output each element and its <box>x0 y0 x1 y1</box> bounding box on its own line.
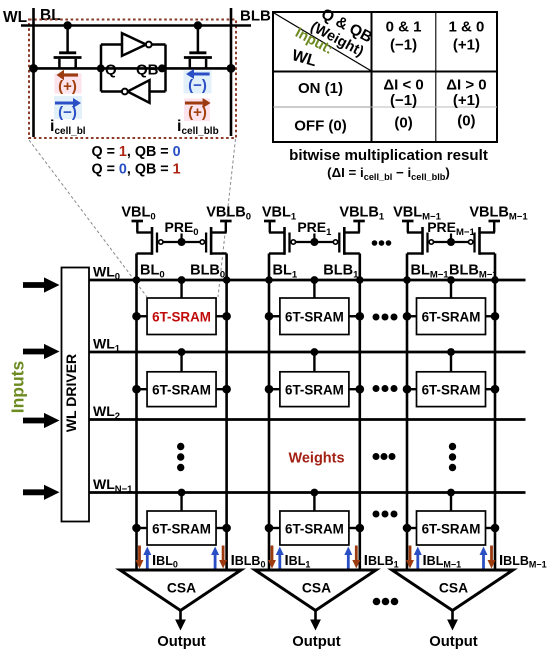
node BLB side col 0 row 1 <box>222 385 231 394</box>
svg-text:(−1): (−1) <box>390 92 417 109</box>
6T-SRAM cell col 0 row 0 <box>137 280 227 335</box>
arrow icell_bl negative (blue right) <box>55 102 73 105</box>
svg-text:Weights: Weights <box>288 451 344 467</box>
power terminal VBL0 <box>132 220 144 223</box>
wire BLM&#8722;1 <box>406 254 409 571</box>
node M2 gate on WL <box>194 21 202 29</box>
svg-text:Q: Q <box>105 62 117 79</box>
CSA comparator col M&#8722;1 <box>392 570 513 611</box>
svg-text:(+1): (+1) <box>453 37 480 54</box>
table header divider <box>273 71 497 73</box>
transistor PRE0 left PMOS <box>137 231 153 233</box>
svg-text:(−): (−) <box>188 77 207 94</box>
node stub col 1 row 1 <box>311 348 319 356</box>
svg-text:6T-SRAM: 6T-SRAM <box>152 383 211 398</box>
svg-text:(+): (+) <box>58 78 77 95</box>
arrow IBLB0 up (blue) <box>214 555 217 569</box>
table diagonal <box>274 13 371 71</box>
node BLB side col 0 row 3 <box>222 524 231 533</box>
node BL side col M&#8722;1 row 3 <box>403 524 412 533</box>
ellipsis dots y=601.5 <box>373 598 381 606</box>
inverter bottom (QB to Q) <box>122 80 150 103</box>
wire PREM&#8722;1 gate <box>434 241 469 243</box>
node BL side col 0 row 3 <box>132 524 141 533</box>
input arrow row 2 <box>23 413 60 428</box>
node QB <box>158 64 166 72</box>
svg-text:Q = 0, QB = 1: Q = 0, QB = 1 <box>92 162 181 178</box>
arrow IBLB0 down (red) <box>222 546 225 561</box>
svg-text:6T-SRAM: 6T-SRAM <box>152 521 211 536</box>
input arrow row 1 <box>23 344 60 359</box>
svg-text:ΔI > 0: ΔI > 0 <box>446 77 486 94</box>
node stub col 0 row 1 <box>178 348 186 356</box>
arrow IBLM&#8722;1 up (blue) <box>416 555 419 569</box>
table outer border <box>273 12 497 142</box>
wire cell horizontal <box>34 67 232 70</box>
power terminal VBL1 <box>264 220 276 223</box>
arrow IBL0 up (blue) <box>146 555 149 569</box>
arrow IBLBM&#8722;1 up (blue) <box>482 555 485 569</box>
6T-SRAM cell col 1 row 3 <box>269 493 360 546</box>
node BLM&#8722;1 x WL0 <box>403 276 411 284</box>
wire BLB rail <box>230 8 233 136</box>
node stub col M&#8722;1 row 0 <box>447 276 455 284</box>
svg-text:ΔI < 0: ΔI < 0 <box>383 77 423 94</box>
WL driver box <box>62 268 90 522</box>
highlight pink (+) right <box>184 99 210 122</box>
arrow IBL1 up (blue) <box>278 555 281 569</box>
svg-text:OFF (0): OFF (0) <box>294 118 347 135</box>
svg-text:(+1): (+1) <box>453 92 480 109</box>
svg-text:QB: QB <box>136 62 159 79</box>
node PRE1 gate <box>310 238 318 246</box>
node BLB side col M&#8722;1 row 0 <box>491 312 500 321</box>
transistor PREM&#8722;1 right PMOS <box>480 231 496 233</box>
svg-text:6T-SRAM: 6T-SRAM <box>285 521 344 536</box>
node stub col M&#8722;1 row 3 <box>447 489 455 497</box>
6T-SRAM cell col 0 row 1 <box>137 352 227 407</box>
svg-text:WL DRIVER: WL DRIVER <box>63 354 79 432</box>
vertical ellipsis x=452.5 <box>449 443 456 450</box>
wire BL1 <box>268 254 271 571</box>
power terminal VBLM&#8722;1 <box>402 220 414 223</box>
svg-text:BL: BL <box>40 7 61 24</box>
wire WL horizontal <box>21 24 251 27</box>
highlight pink (+) left <box>55 74 82 94</box>
output arrow col 0 <box>179 611 182 620</box>
svg-text:0 & 1: 0 & 1 <box>386 19 422 36</box>
svg-text:CSA: CSA <box>167 581 196 596</box>
transistor M1 (left access) <box>54 26 82 69</box>
ellipsis dots y=456.5 <box>373 453 380 460</box>
node BL side col 1 row 1 <box>265 385 274 394</box>
wire BLB0 <box>225 254 228 571</box>
wire BLBM&#8722;1 <box>494 254 497 571</box>
wire WL3 <box>89 491 526 494</box>
wire PRE0 gate <box>163 241 200 243</box>
node stub col 0 row 0 <box>178 276 186 284</box>
node stub col 1 row 0 <box>311 276 319 284</box>
svg-text:CSA: CSA <box>302 581 331 596</box>
svg-text:Output: Output <box>157 634 206 650</box>
power terminal VBLB1 <box>353 220 365 223</box>
6T-SRAM cell col 1 row 0 <box>269 280 360 335</box>
node BL side col 1 row 0 <box>265 312 274 321</box>
output arrow col M&#8722;1 <box>451 611 454 620</box>
node PREM&#8722;1 gate <box>447 238 455 246</box>
CSA comparator col 0 <box>120 570 241 611</box>
highlight blue (-) left <box>54 96 82 119</box>
node Q <box>97 64 105 72</box>
6T-SRAM cell col 1 row 1 <box>269 352 360 407</box>
6T-SRAM cell col M&#8722;1 row 3 <box>407 493 495 546</box>
svg-text:1 & 0: 1 & 0 <box>448 19 484 36</box>
svg-text:6T-SRAM: 6T-SRAM <box>285 310 344 325</box>
arrow icell_bl positive (left, red) <box>64 73 78 76</box>
6T-SRAM cell col M&#8722;1 row 1 <box>407 352 495 407</box>
output arrow col 1 <box>314 611 317 620</box>
node stub col M&#8722;1 row 1 <box>447 348 455 356</box>
table column divider 2 <box>435 12 437 142</box>
node BLB side col 1 row 3 <box>356 524 365 533</box>
node BLB0 x WL0 <box>223 276 231 284</box>
svg-text:ON (1): ON (1) <box>298 80 343 97</box>
node BLB junction <box>227 64 236 73</box>
svg-text:(−1): (−1) <box>390 37 417 54</box>
CSA comparator col 1 <box>255 570 376 611</box>
svg-text:Inputs: Inputs <box>8 360 28 413</box>
svg-text:6T-SRAM: 6T-SRAM <box>422 310 481 325</box>
svg-text:IBLB1: IBLB1 <box>364 552 399 570</box>
ellipsis dots y=243 <box>372 240 378 246</box>
wire BL0 <box>135 254 138 571</box>
svg-text:6T-SRAM: 6T-SRAM <box>152 310 211 325</box>
transistor PREM&#8722;1 left PMOS <box>407 231 423 233</box>
wire WL2 <box>89 418 526 421</box>
node BLB side col M&#8722;1 row 3 <box>491 524 500 533</box>
table column divider 1 <box>371 12 373 142</box>
power terminal VBLB0 <box>220 220 232 223</box>
wire WL0 <box>89 279 526 282</box>
svg-text:Output: Output <box>292 634 341 650</box>
transistor M2 (right access) <box>184 26 212 69</box>
dashed connector left <box>29 140 147 297</box>
node BL side col 1 row 3 <box>265 524 274 533</box>
svg-text:Q = 1, QB = 0: Q = 1, QB = 0 <box>92 144 181 160</box>
svg-text:Output: Output <box>429 634 478 650</box>
wire latch loop <box>101 45 166 92</box>
node BLB side col M&#8722;1 row 1 <box>491 385 500 394</box>
node BL junction <box>29 64 38 73</box>
arrow IBL0 down (red) <box>138 546 141 561</box>
transistor PRE0 right PMOS <box>211 231 227 233</box>
node BLB side col 1 row 0 <box>356 312 365 321</box>
inverter top (Q to QB) <box>122 33 152 56</box>
svg-text:(0): (0) <box>394 115 412 132</box>
node BL side col M&#8722;1 row 0 <box>403 312 412 321</box>
ellipsis dots y=388.5 <box>373 385 380 392</box>
dashed callout box <box>29 20 236 139</box>
svg-text:(0): (0) <box>457 113 475 130</box>
svg-text:6T-SRAM: 6T-SRAM <box>422 383 481 398</box>
svg-text:bitwise multiplication result: bitwise multiplication result <box>289 147 488 164</box>
node stub col 1 row 3 <box>311 489 319 497</box>
node BL side col M&#8722;1 row 1 <box>403 385 412 394</box>
arrow icell_blb negative (blue left) <box>194 73 210 76</box>
input arrow row 0 <box>23 277 60 292</box>
wire BL rail <box>32 8 35 137</box>
node BLB side col 0 row 0 <box>222 312 231 321</box>
input arrow row 3 <box>23 485 60 500</box>
transistor PRE1 right PMOS <box>344 231 360 233</box>
arrow icell_blb positive (red right) <box>185 102 203 105</box>
ellipsis dots y=514 <box>373 511 380 518</box>
wire BLB1 <box>358 254 361 571</box>
arrow IBLM&#8722;1 down (red) <box>409 546 412 561</box>
svg-text:CSA: CSA <box>439 581 468 596</box>
node BL side col 0 row 1 <box>132 385 141 394</box>
svg-text:WL: WL <box>3 9 27 26</box>
arrow IBLB1 down (red) <box>355 546 358 561</box>
svg-text:BLB: BLB <box>240 8 271 25</box>
dashed connector right <box>218 139 236 297</box>
node BLBM&#8722;1 x WL0 <box>491 276 499 284</box>
svg-text:IBLB0: IBLB0 <box>231 552 266 570</box>
arrow IBL1 down (red) <box>271 546 274 561</box>
node BLB side col 1 row 1 <box>356 385 365 394</box>
transistor PRE1 left PMOS <box>269 231 285 233</box>
node stub col 0 row 3 <box>178 489 186 497</box>
power terminal VBLBM&#8722;1 <box>489 220 501 223</box>
node PRE0 gate <box>178 238 186 246</box>
node BL1 x WL0 <box>265 276 273 284</box>
ellipsis dots y=317 <box>373 314 380 321</box>
node BL0 x WL0 <box>133 276 141 284</box>
wire WL1 <box>89 351 526 354</box>
6T-SRAM cell col 0 row 3 <box>137 493 227 546</box>
node BLB1 x WL0 <box>356 276 364 284</box>
svg-text:(+): (+) <box>188 104 207 121</box>
svg-text:6T-SRAM: 6T-SRAM <box>285 383 344 398</box>
table row divider <box>273 106 372 108</box>
node M1 gate on WL <box>63 21 71 29</box>
arrow IBLBM&#8722;1 down (red) <box>490 546 493 561</box>
highlight blue (-) right <box>184 71 212 94</box>
6T-SRAM cell col M&#8722;1 row 0 <box>407 280 495 335</box>
svg-text:(−): (−) <box>58 104 77 121</box>
vertical ellipsis x=180.7 <box>177 443 184 450</box>
arrow IBLB1 up (blue) <box>347 555 350 569</box>
svg-text:6T-SRAM: 6T-SRAM <box>422 521 481 536</box>
node BL side col 0 row 0 <box>132 312 141 321</box>
wire PRE1 gate <box>296 241 334 243</box>
